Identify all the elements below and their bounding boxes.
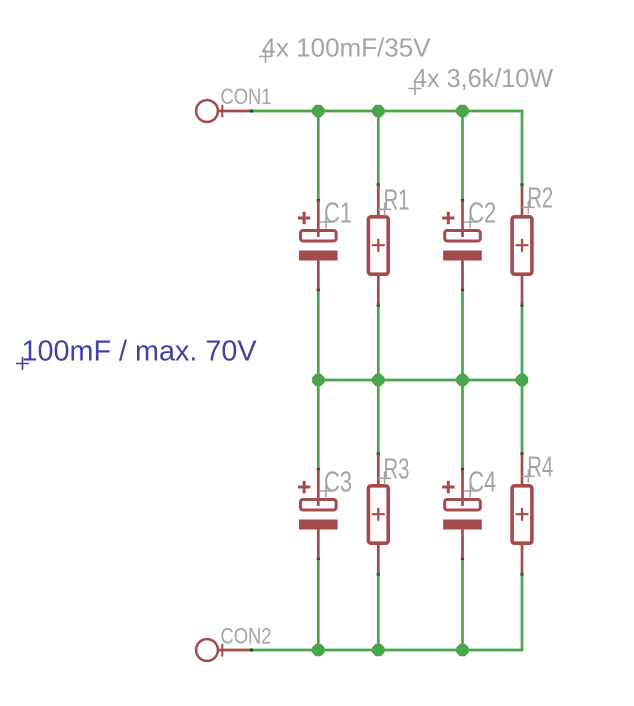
junction C2 y650 [456, 644, 468, 656]
wire R3 column from middle rail [377, 380, 380, 454]
connector CON1 [196, 100, 251, 122]
wire C2 column to middle rail [461, 290, 464, 381]
svg-text:4x 3,6k/10W: 4x 3,6k/10W [413, 63, 553, 93]
svg-text:R4: R4 [527, 452, 553, 484]
resistor R3 [368, 454, 388, 574]
origin marker R3 [378, 472, 391, 485]
origin marker C4 [464, 485, 477, 498]
svg-text:C1: C1 [324, 198, 352, 230]
wire R2 column top [521, 111, 524, 185]
svg-text:CON2: CON2 [221, 624, 272, 649]
connector CON2 [196, 639, 251, 661]
resistor R2 [512, 185, 532, 305]
origin marker R1 [378, 203, 391, 216]
svg-text:C3: C3 [324, 467, 352, 499]
origin marker R2 [522, 201, 535, 214]
wire C3 column to bottom rail [317, 559, 320, 651]
net endpoint C2 0 a [461, 199, 464, 202]
svg-text:R3: R3 [384, 454, 410, 486]
wire bottom rail [252, 649, 523, 652]
wire R4 column to bottom rail [521, 574, 524, 650]
junction C1 y650 [312, 644, 324, 656]
svg-text:C4: C4 [468, 467, 496, 499]
capacitor C2 [442, 201, 482, 290]
wire C3 column from middle rail [317, 380, 320, 470]
wire top rail [252, 110, 523, 113]
junction C2 y380 [456, 374, 468, 386]
net endpoint C1 0 b [317, 288, 320, 291]
junction C1 y380 [312, 374, 324, 386]
origin marker C1 [320, 216, 333, 229]
svg-text:R2: R2 [527, 183, 553, 215]
net endpoint R2 0 b [520, 303, 523, 306]
svg-text:C2: C2 [468, 198, 496, 230]
svg-text:4x 100mF/35V: 4x 100mF/35V [262, 33, 432, 63]
capacitor C3 [298, 470, 338, 559]
net endpoint R2 269 a [520, 452, 523, 455]
wire R2 column to middle rail [521, 305, 524, 380]
net endpoint R2 269 b [520, 572, 523, 575]
svg-text:100mF / max. 70V: 100mF / max. 70V [22, 336, 257, 368]
text origin marker 100mF / max. 70V [16, 357, 29, 370]
net endpoint at CON1 [250, 109, 253, 112]
resistor R1 [368, 185, 388, 305]
net endpoint at CON2 [250, 648, 253, 651]
origin marker R4 [522, 470, 535, 483]
wire C1 column to middle rail [317, 290, 320, 381]
origin marker C2 [464, 216, 477, 229]
origin marker C3 [320, 485, 333, 498]
junction R1 y650 [372, 644, 384, 656]
wire R1 column to middle rail [377, 305, 380, 380]
capacitor C1 [298, 201, 338, 290]
text origin marker 4x 3,6k/10W [409, 82, 422, 95]
text origin marker 4x 100mF/35V [259, 50, 272, 63]
svg-text:R1: R1 [384, 185, 410, 217]
net endpoint R2 0 a [520, 183, 523, 186]
net endpoint R1 269 a [377, 452, 380, 455]
wire R1 column top [377, 111, 380, 185]
net endpoint C1 269 a [317, 468, 320, 471]
wire middle rail [318, 379, 522, 382]
wire R4 column from middle rail [521, 380, 524, 454]
net endpoint R1 0 b [377, 303, 380, 306]
wire C4 column from middle rail [461, 380, 464, 470]
junction R1 y380 [372, 374, 384, 386]
net endpoint C1 0 a [317, 199, 320, 202]
wire C4 column to bottom rail [461, 559, 464, 651]
junction C1 y111 [312, 105, 324, 117]
net endpoint R1 269 b [377, 572, 380, 575]
junction C2 y111 [456, 105, 468, 117]
junction R1 y111 [372, 105, 384, 117]
net endpoint C2 0 b [461, 288, 464, 291]
net endpoint C2 269 b [461, 557, 464, 560]
net endpoint R1 0 a [377, 183, 380, 186]
net endpoint C1 269 b [317, 557, 320, 560]
wire C2 column top [461, 111, 464, 201]
net endpoint C2 269 a [461, 468, 464, 471]
svg-text:CON1: CON1 [221, 84, 272, 109]
junction R2 y380 [516, 374, 528, 386]
capacitor C4 [442, 470, 482, 559]
resistor R4 [512, 454, 532, 574]
wire C1 column top [317, 111, 320, 201]
wire R3 column to bottom rail [377, 574, 380, 650]
